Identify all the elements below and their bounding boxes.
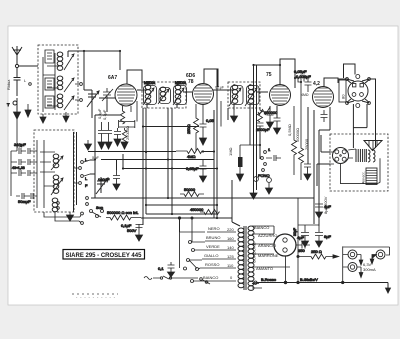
electrolytic cap 8uF [315, 225, 332, 241]
primary tap labels [203, 226, 234, 280]
svg-text:0,1: 0,1 [158, 266, 164, 271]
ground under 1M [237, 174, 244, 181]
decoupling caps with grounds [98, 122, 112, 142]
band switch terminals mid [74, 157, 90, 188]
svg-text:0,5MΩ: 0,5MΩ [287, 124, 292, 136]
tap selector wires [180, 232, 206, 281]
svg-text:Avv.ecc.: Avv.ecc. [362, 171, 366, 184]
svg-text:1MΩ: 1MΩ [228, 147, 233, 156]
pilot lamp frame [343, 246, 390, 278]
IF1 secondary coil [173, 81, 187, 105]
svg-text:BRUNO: BRUNO [206, 235, 220, 240]
svg-text:75: 75 [266, 72, 272, 78]
output transformer primary winding [356, 149, 365, 162]
42 plate loop [324, 78, 338, 87]
ground arrows under coil box [67, 140, 92, 221]
75 plate loop [280, 59, 295, 88]
IF2 secondary coil [245, 85, 259, 106]
pilot lamp 1 [348, 250, 357, 259]
pilot lamp 3 [348, 263, 357, 272]
label Riduz [6, 79, 11, 90]
B+ vertical bus pair [254, 59, 281, 193]
coupling cap 0.05uF to 42 [294, 69, 308, 82]
cap ground under 42 [304, 164, 311, 174]
L terminal label [24, 78, 31, 85]
ground under B+ bus [250, 193, 257, 199]
cap 0.1uF 500V after pot [121, 218, 143, 236]
ground under 8uF [316, 241, 323, 247]
wire 42 loop to socket [338, 78, 347, 80]
wire tuning to 6A7 grid [84, 90, 115, 118]
svg-text:B.Rosso: B.Rosso [261, 277, 277, 282]
svg-text:125: 125 [227, 254, 234, 259]
svg-text:250 Ω: 250 Ω [311, 249, 322, 254]
ground under padder [113, 184, 120, 190]
switch Son circles [86, 197, 104, 218]
osc coil L4 [51, 154, 63, 170]
speaker internal wiring [330, 149, 380, 184]
IF2 lower resistor 250000 [258, 108, 279, 122]
svg-text:CORDONE: CORDONE [252, 242, 257, 263]
svg-text:0,05μF: 0,05μF [186, 166, 199, 171]
bottom bus wire [254, 281, 388, 288]
6D6 grid cap loop [204, 69, 218, 87]
svg-text:50000Ω: 50000Ω [295, 128, 300, 142]
output transformer secondary winding [366, 149, 375, 162]
transformer primary winding [238, 228, 244, 288]
cap 0.0001 under IF2 [256, 123, 270, 132]
resistor 250 ohm [308, 249, 327, 259]
IF1 wiring [137, 84, 192, 108]
label 4M ohm at 42 grid [301, 93, 309, 97]
bottom left wires into transformer [217, 108, 240, 226]
title box SIARE [63, 250, 145, 260]
tube 6A7 [108, 75, 137, 106]
socket to speaker wires [353, 79, 375, 148]
tone switch terminals [261, 147, 281, 171]
labels right mid vertical [287, 124, 309, 150]
IF2 wiring [213, 84, 268, 110]
IF1 primary coil [143, 81, 157, 105]
6A7 cathode bypass cap [114, 128, 121, 139]
8uF note [92, 155, 100, 160]
B.Rosso label [252, 277, 318, 285]
ground under 6A7 cap [114, 139, 121, 146]
tube 75 [266, 72, 291, 106]
IF transformer 1 box [142, 82, 186, 108]
wires inside coil box [43, 53, 59, 112]
electrolytic cap 4uF upper [315, 199, 332, 213]
svg-text:BIANCO: BIANCO [203, 275, 218, 280]
mains switch on cord [200, 278, 210, 284]
tap terminal circles [184, 241, 199, 283]
antenna A [12, 46, 22, 68]
svg-text:25000Ω: 25000Ω [125, 126, 130, 140]
label 0.1uF between stages [215, 86, 224, 90]
1M resistor dark block [228, 145, 260, 174]
label 0.1uF vertical pair [97, 108, 107, 120]
lamp label [363, 262, 376, 272]
ground under 4uF [316, 212, 323, 218]
svg-text:4μF: 4μF [324, 204, 332, 209]
terminal circles right of box [75, 83, 82, 102]
bottom bus arrow [386, 288, 391, 293]
svg-text:50000: 50000 [184, 187, 196, 192]
6D6 cathode resistor 250ohm [186, 104, 199, 151]
ground under 6D6 cap [200, 138, 207, 145]
resistor 450000 horizontal [190, 207, 220, 215]
svg-text:160: 160 [227, 236, 234, 241]
left long bus verticals [90, 115, 120, 198]
6D6 bypass cap 0.05 [200, 104, 215, 138]
antenna coil L1 [45, 50, 74, 70]
svg-text:B.Giallo/V: B.Giallo/V [300, 277, 318, 282]
svg-text:80: 80 [341, 94, 346, 99]
dotted mark bottom [72, 294, 118, 298]
wire 250ohm left [297, 199, 319, 284]
grounds for decoupling caps [98, 142, 112, 149]
right vertical wires under 42 [308, 107, 330, 226]
mid vertical bus pair [214, 69, 217, 218]
left coupling caps row1 [11, 142, 37, 154]
padder trimmer [102, 88, 113, 101]
tube 6D6 [186, 73, 214, 105]
speaker cone [364, 141, 382, 151]
antenna series capacitor [14, 68, 21, 96]
mid horizontal buses [88, 108, 314, 225]
vertical wires beside osc box [74, 132, 77, 212]
svg-text:3(u)μF: 3(u)μF [14, 142, 26, 147]
svg-text:100μF: 100μF [98, 177, 110, 182]
selector feed wire [191, 217, 193, 242]
6A7 grid cap loop [127, 70, 142, 88]
left cap row4 [16, 193, 37, 204]
svg-text:4MΩ: 4MΩ [301, 93, 309, 97]
svg-text:50mμF: 50mμF [18, 199, 31, 204]
oscillator coil box dashed [34, 130, 74, 212]
ground under interruttore cap [168, 272, 175, 277]
6A7 bias network bridge [119, 120, 135, 128]
0.004uF cap above 42 [296, 74, 312, 92]
secondary tap labels [254, 225, 279, 271]
wire from coupling cap to resistors [294, 78, 301, 120]
mains cord plug [144, 276, 198, 280]
grounds under 75 caps [267, 122, 281, 134]
IF1 middle coil [158, 87, 171, 104]
left coupling caps row2 [11, 159, 37, 170]
label 80 box [339, 80, 346, 102]
interruttore cap [158, 262, 175, 272]
cap under 42 cathode [321, 110, 328, 122]
ground under 42 cap [304, 174, 311, 180]
svg-text:Son: Son [96, 205, 103, 210]
tube 42 [313, 81, 334, 108]
ground mid cap [200, 176, 207, 182]
screen grid wire [131, 101, 137, 122]
rectifier socket 80 [346, 75, 371, 108]
transformer secondary winding [248, 226, 254, 290]
svg-text:220: 220 [227, 227, 234, 232]
pilot lamp 2 [376, 250, 385, 259]
ground under 30uF [302, 241, 309, 247]
lamp down arrows [359, 255, 377, 278]
resistor 50000 horizontal [180, 187, 204, 197]
terminal T [7, 101, 17, 107]
svg-text:450000: 450000 [190, 207, 204, 212]
svg-text:250000: 250000 [264, 110, 278, 115]
ground under fono [266, 183, 273, 194]
svg-text:SIARE 295 - CROSLEY 445: SIARE 295 - CROSLEY 445 [66, 253, 143, 259]
wire lamp frame to bus [342, 278, 344, 284]
svg-text:Riduz.: Riduz. [6, 79, 11, 90]
svg-text:FONO: FONO [258, 173, 270, 178]
4uF cap right of rectifier [296, 235, 310, 253]
oscillator tuning cap C2 [96, 177, 108, 194]
wire antenna to coil box [17, 66, 38, 96]
diode load wiring under 75 [260, 106, 277, 159]
osc coil L5 [51, 175, 63, 195]
bus wires to volume area [101, 154, 217, 170]
svg-text:4,2: 4,2 [313, 81, 320, 87]
power transformer primary tap rows [198, 232, 236, 281]
svg-text:43=1,38: 43=1,38 [12, 166, 25, 170]
ground under 25000 [121, 142, 128, 149]
IF2 primary coil [229, 85, 243, 106]
speaker plug socket [333, 148, 349, 164]
AVC resistor 4Mohm horizontal [176, 149, 203, 160]
Fono jacks [254, 173, 272, 182]
svg-text:NERO: NERO [208, 226, 220, 231]
CORDONE vertical label [252, 242, 257, 263]
wire pot to transformer [141, 217, 217, 232]
svg-text:300mA: 300mA [363, 267, 376, 272]
svg-text:0,05: 0,05 [206, 118, 215, 123]
transformer core [244, 226, 246, 290]
ground under 0.1uF [136, 235, 143, 241]
svg-text:VERDE: VERDE [206, 244, 220, 249]
cap 0.05uF with ground mid [186, 160, 207, 176]
tuning gang capacitor C1 [87, 90, 99, 107]
svg-text:2500pF: 2500pF [256, 127, 270, 132]
osc padder cap 100uF [98, 170, 120, 184]
speaker unit box [330, 134, 388, 191]
svg-text:MEDIA: MEDIA [144, 81, 156, 85]
svg-text:500V: 500V [127, 228, 137, 233]
wires under osc box [44, 212, 83, 224]
screen feed wire 6D6 [220, 101, 222, 127]
svg-text:4MΩ: 4MΩ [187, 154, 196, 159]
left edge vertical wire [11, 98, 17, 196]
svg-text:350: 350 [298, 248, 305, 253]
wire coil box top to grid line [68, 51, 120, 90]
left coupling caps row3 [11, 170, 37, 176]
antenna coil unit box (dashed) [38, 45, 78, 114]
8uF 500V label [323, 196, 328, 214]
field coil [362, 168, 378, 185]
antenna coil L3 [45, 94, 74, 110]
osc coil L6 [52, 198, 59, 212]
rectifier tube circle [274, 234, 296, 284]
filament loop above socket [344, 64, 356, 78]
6A7 cathode resistor [120, 106, 124, 124]
svg-text:6A7: 6A7 [108, 75, 117, 81]
antenna coil L2 [45, 76, 74, 92]
label 25000 ohm [125, 126, 130, 140]
secondary tap wires [252, 226, 290, 288]
svg-text:110: 110 [227, 263, 234, 268]
resistors under 42 region verticals [292, 110, 304, 180]
svg-text:8μF: 8μF [324, 234, 332, 239]
electrolytic cap 30uF [293, 225, 309, 241]
IF transformer 2 box [228, 82, 260, 108]
svg-text:ROSSO: ROSSO [205, 262, 219, 267]
caps under 75 [267, 112, 281, 128]
volume potentiometer 500000 ohm [106, 210, 141, 220]
ground under IF2 primary [231, 110, 238, 122]
diode load resistor 1Mohm small [258, 107, 270, 115]
osc box internal wires [37, 140, 55, 208]
svg-text:140: 140 [227, 245, 234, 250]
ground stubs under coil box [40, 112, 69, 123]
svg-text:GIALLO: GIALLO [204, 253, 218, 258]
bus verticals x168 x172 [146, 108, 217, 214]
svg-text:500000 Ω con int.: 500000 Ω con int. [107, 210, 138, 215]
svg-text:250Ω: 250Ω [186, 124, 191, 134]
ground arrow at antenna [14, 98, 32, 119]
6A7 bias resistor 25000 [122, 128, 126, 143]
svg-text:78: 78 [188, 79, 194, 85]
arrow to lamps [327, 255, 339, 258]
wire IF2 secondary to AVC [249, 110, 251, 145]
svg-text:30μF: 30μF [293, 228, 297, 236]
svg-text:0,1μF: 0,1μF [215, 86, 224, 90]
